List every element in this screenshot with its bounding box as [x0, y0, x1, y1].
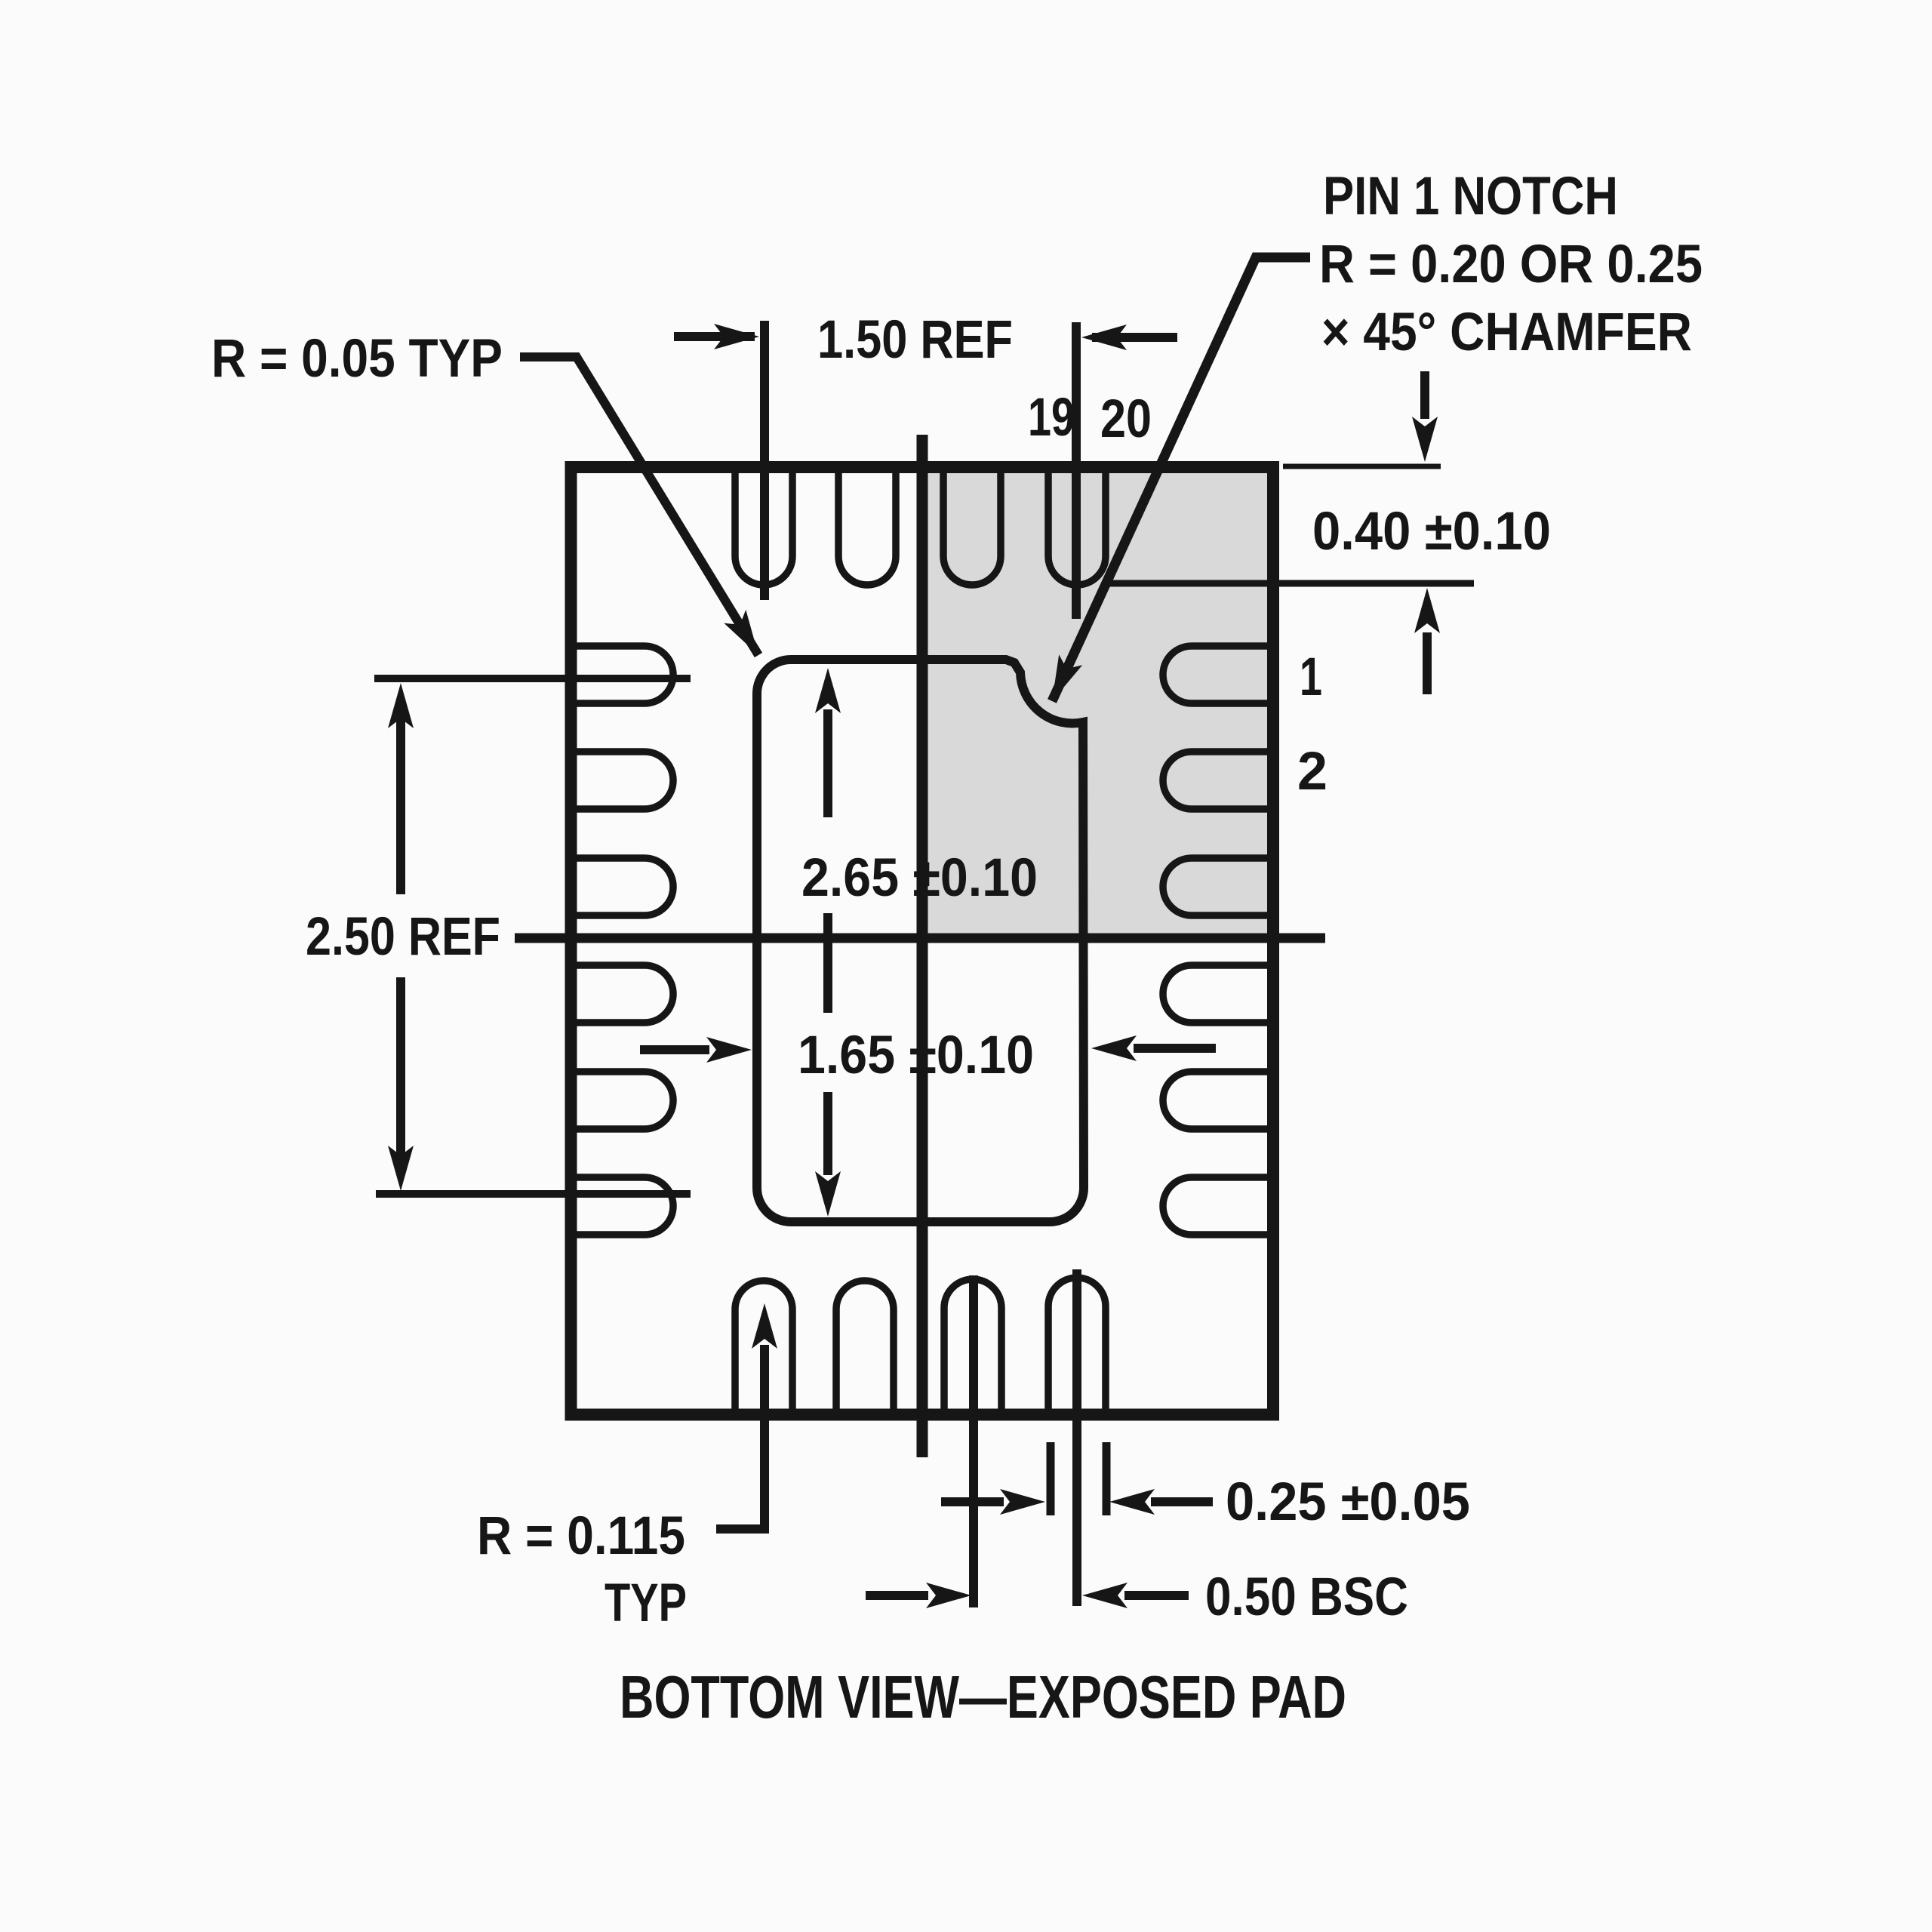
- pin R2 (pin 2): [1163, 752, 1271, 809]
- svg-text:R = 0.05 TYP: R = 0.05 TYP: [211, 329, 503, 389]
- svg-text:1: 1: [1300, 648, 1322, 707]
- dim 0.25: pin B4 extension line: [1072, 1269, 1081, 1606]
- exposed pad outline with pin 1 notch: [757, 660, 1084, 1222]
- dim 1.50 REF: right arrow: [1092, 333, 1177, 342]
- dim 0.25: right tick: [1103, 1442, 1111, 1515]
- pin L3: [574, 858, 673, 915]
- dim 0.40: up arrow: [1423, 632, 1432, 694]
- pin L5: [574, 1072, 673, 1129]
- pin B4: [1048, 1278, 1106, 1417]
- dim 2.50 REF: down arrow: [396, 977, 405, 1157]
- leader R = 0.05 TYP: [520, 357, 758, 655]
- dim 2.65: up arrow: [823, 709, 832, 817]
- leader PIN 1 NOTCH: [1052, 257, 1310, 701]
- dim 1.65: right arrow: [1134, 1044, 1216, 1053]
- svg-text:1.65 ±0.10: 1.65 ±0.10: [798, 1026, 1034, 1085]
- dim 1.50 REF: left extension line: [760, 321, 769, 600]
- svg-text:TYP: TYP: [605, 1574, 687, 1633]
- dim 0.50 BSC: left arrow: [866, 1591, 928, 1600]
- svg-text:× 45° CHAMFER: × 45° CHAMFER: [1321, 303, 1692, 362]
- dim 1.50 REF: left arrow: [674, 332, 755, 341]
- svg-text:BOTTOM VIEW—EXPOSED PAD: BOTTOM VIEW—EXPOSED PAD: [620, 1663, 1346, 1730]
- pin L4: [574, 965, 673, 1023]
- svg-text:PIN 1 NOTCH: PIN 1 NOTCH: [1323, 167, 1618, 226]
- pin R6: [1163, 1177, 1271, 1235]
- svg-text:2.50 REF: 2.50 REF: [306, 907, 500, 967]
- dim 1.50 REF: right extension line: [1072, 322, 1081, 619]
- pin B2: [836, 1281, 894, 1417]
- pin B1 (bottom row, leftmost): [735, 1281, 792, 1417]
- svg-text:R = 0.20 OR 0.25: R = 0.20 OR 0.25: [1319, 235, 1703, 294]
- pin R3: [1163, 858, 1271, 915]
- dim 0.25: left arrow: [941, 1497, 1004, 1506]
- dim 2.65: middle segment: [823, 913, 832, 1013]
- shaded quadrant (pin 1 quadrant): [922, 464, 1275, 939]
- dim 0.50 BSC: right arrow: [1124, 1591, 1189, 1600]
- svg-text:0.40 ±0.10: 0.40 ±0.10: [1312, 502, 1551, 561]
- svg-text:0.25 ±0.05: 0.25 ±0.05: [1226, 1472, 1470, 1532]
- svg-text:R = 0.115: R = 0.115: [477, 1506, 685, 1566]
- dim 2.65: down arrow: [823, 1092, 832, 1175]
- svg-text:2.65 ±0.10: 2.65 ±0.10: [801, 848, 1038, 908]
- pin R5: [1163, 1072, 1271, 1129]
- pin T2: [838, 465, 896, 585]
- svg-text:1.50 REF: 1.50 REF: [817, 310, 1013, 370]
- pin R1 (pin 1): [1163, 646, 1271, 703]
- pin L2: [574, 752, 673, 809]
- pin B3: [944, 1279, 1001, 1417]
- dim 1.65: left arrow: [640, 1045, 709, 1054]
- dim 0.50 BSC: pin B3 extension line: [969, 1275, 978, 1607]
- svg-text:0.50 BSC: 0.50 BSC: [1205, 1567, 1408, 1627]
- pin T3 (pin 19): [943, 465, 1001, 585]
- pin T1 (top row, leftmost): [735, 465, 792, 585]
- svg-text:19: 19: [1028, 388, 1075, 448]
- dim 2.50 REF: up arrow: [396, 717, 405, 894]
- svg-text:20: 20: [1100, 389, 1152, 449]
- dim 2.50 REF: bottom tick: [376, 1190, 691, 1198]
- svg-text:2: 2: [1297, 742, 1327, 801]
- dim 0.25: right arrow: [1151, 1497, 1213, 1506]
- pin L6: [574, 1177, 673, 1235]
- package outline: [571, 467, 1274, 1415]
- dim 0.25: left tick: [1047, 1442, 1055, 1515]
- dim 0.40: down arrow: [1420, 371, 1429, 419]
- pin T4 (pin 20): [1048, 465, 1106, 585]
- pin R4: [1163, 965, 1271, 1023]
- leader R = 0.115 TYP: [716, 1345, 764, 1529]
- dim 0.40: top reference line: [1283, 464, 1441, 469]
- vertical centerline: [917, 435, 928, 1457]
- dim 2.50 REF: top tick: [374, 675, 691, 682]
- horizontal centerline: [515, 934, 1325, 943]
- dim 0.40: bottom reference line: [1107, 580, 1474, 587]
- pin L1 (left column, pin 20 side top): [574, 646, 673, 703]
